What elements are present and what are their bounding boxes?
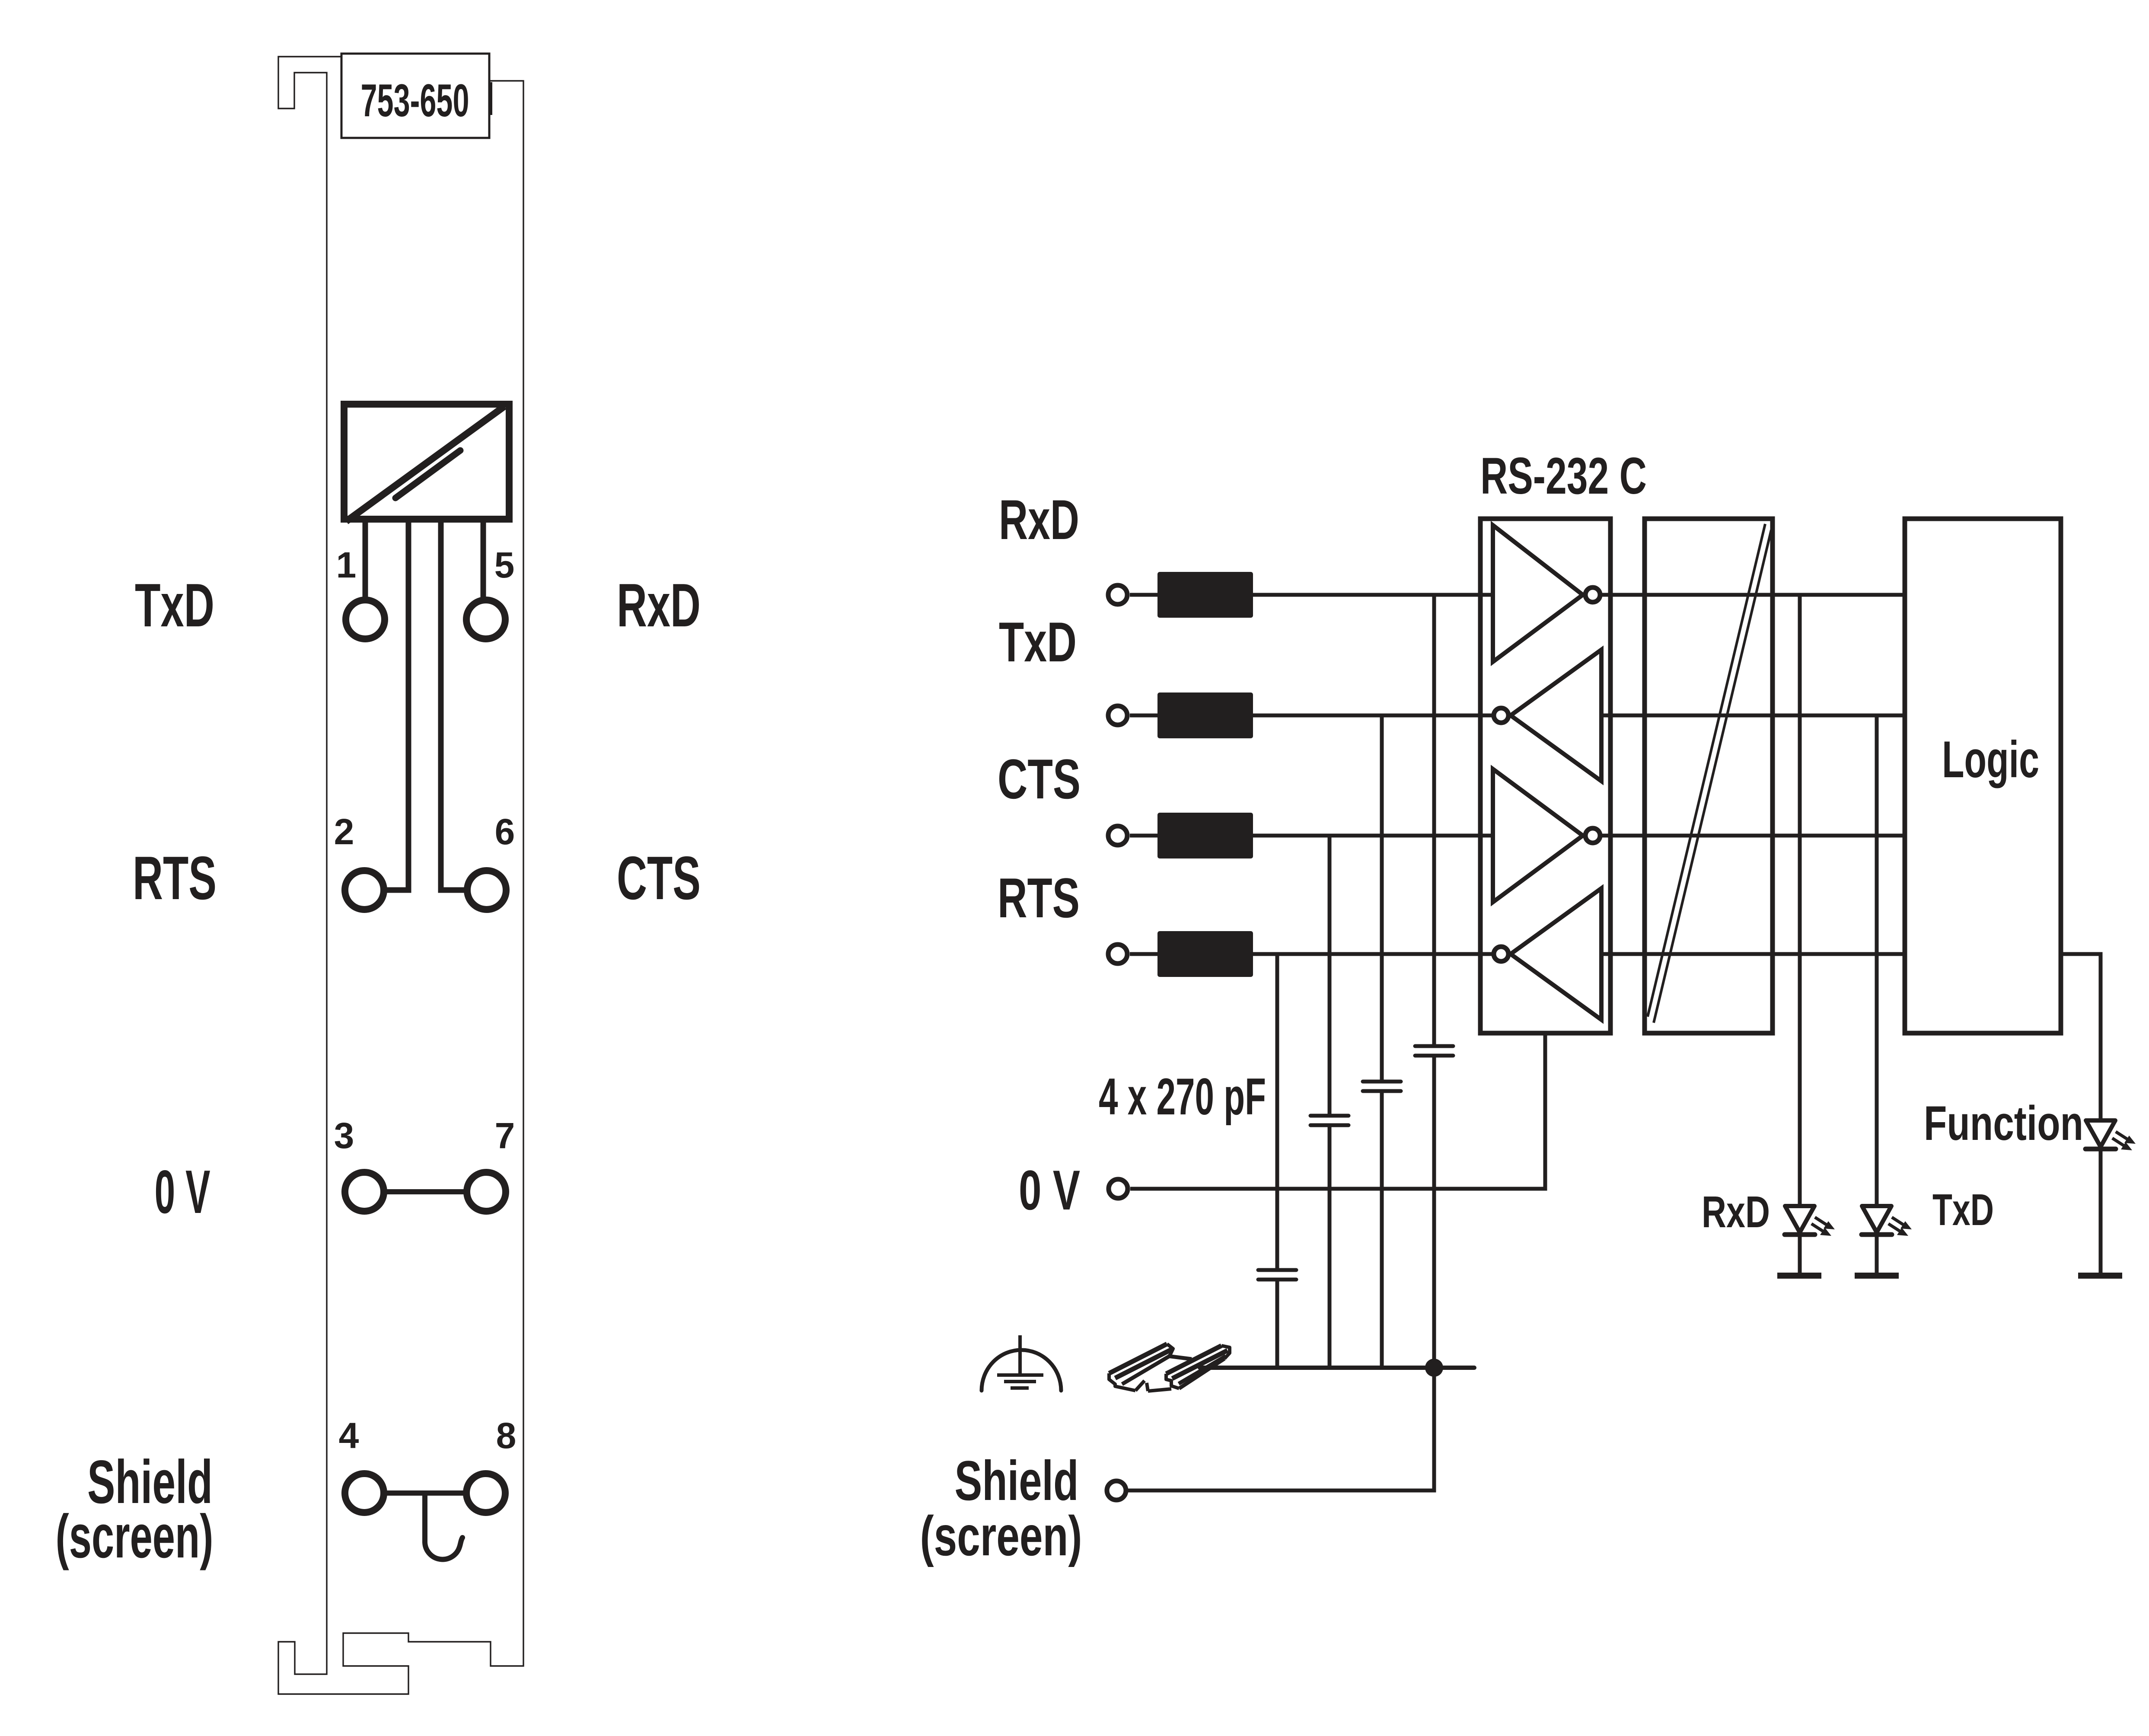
resistor CTS <box>1157 813 1253 858</box>
LED Function arrows <box>2111 1130 2136 1150</box>
wire RTS row <box>1130 952 1905 956</box>
pin wire 1 <box>363 519 368 601</box>
LED TxD <box>1862 1206 1891 1232</box>
resistor TxD <box>1157 692 1253 738</box>
svg-text:0 V: 0 V <box>155 1158 210 1226</box>
svg-text:6: 6 <box>495 811 515 852</box>
svg-text:753-650: 753-650 <box>361 74 469 126</box>
inverter circle TxD <box>1494 708 1508 723</box>
terminal 2 RTS <box>345 871 384 909</box>
RS-232C driver box <box>1480 519 1610 1033</box>
inverter circle RxD <box>1585 587 1600 602</box>
svg-text:7: 7 <box>495 1115 515 1156</box>
svg-text:(screen): (screen) <box>920 1504 1082 1567</box>
buffer triangle RxD <box>1493 525 1583 662</box>
wire logic to Function LED <box>2061 954 2101 1120</box>
buffer triangle RTS <box>1511 888 1601 1020</box>
LED TxD arrows <box>1888 1216 1912 1236</box>
LED Function <box>2086 1120 2115 1147</box>
svg-text:Logic: Logic <box>1942 731 2039 788</box>
svg-text:(screen): (screen) <box>56 1502 214 1571</box>
svg-text:RxD: RxD <box>1702 1187 1770 1237</box>
LED RxD <box>1785 1206 1814 1232</box>
svg-text:8: 8 <box>496 1415 517 1456</box>
terminal Shield <box>1107 1481 1126 1500</box>
svg-text:5: 5 <box>494 545 515 585</box>
LED RxD arrows <box>1811 1216 1835 1236</box>
svg-text:RTS: RTS <box>133 844 217 913</box>
svg-text:TxD: TxD <box>135 571 214 640</box>
terminal 1 TxD <box>346 600 385 639</box>
svg-text:Function: Function <box>1924 1096 2083 1150</box>
svg-text:2: 2 <box>334 811 354 852</box>
earth symbol <box>1018 1335 1022 1375</box>
terminal RTS <box>1108 945 1127 964</box>
svg-text:1: 1 <box>336 545 357 585</box>
pin wire 3 to CTS <box>441 519 466 890</box>
wire RxD row <box>1130 593 1905 597</box>
shield wire <box>1128 1368 1434 1490</box>
svg-text:4: 4 <box>339 1415 359 1456</box>
isolation diagonal <box>346 406 504 521</box>
svg-text:TxD: TxD <box>1932 1185 1994 1235</box>
inverter circle CTS <box>1585 828 1600 843</box>
Logic box <box>1905 519 2061 1033</box>
svg-text:RxD: RxD <box>999 488 1079 551</box>
capacitor plates RxD <box>1415 1046 1453 1056</box>
terminal TxD <box>1108 706 1127 725</box>
0V wire to RS-232C <box>1130 1033 1545 1189</box>
ground bar TxD LED <box>1855 1273 1899 1279</box>
terminal 5 RxD <box>466 600 505 639</box>
buffer triangle TxD <box>1511 650 1601 781</box>
right edge stub <box>490 82 492 115</box>
isolation box (schematic) <box>1645 519 1773 1033</box>
wire logic to TxD LED <box>1875 715 1879 1206</box>
resistor RTS <box>1157 931 1253 977</box>
isolation double diagonal <box>1648 524 1771 1023</box>
module outline 753-650 bus coupler body <box>278 57 523 1694</box>
shield hook <box>425 1493 462 1559</box>
link Shield terminals <box>380 1490 469 1496</box>
label plate 753-650 <box>341 54 489 138</box>
isolation short diagonal <box>395 450 460 498</box>
svg-text:RS-232 C: RS-232 C <box>1480 447 1647 505</box>
wire TxD row <box>1130 714 1905 718</box>
DIN rail icon <box>1109 1344 1230 1391</box>
terminal 8 Shield <box>466 1474 505 1513</box>
terminal RxD <box>1108 585 1127 604</box>
ground bus <box>1200 1366 1474 1370</box>
isolation box (left module) <box>344 404 509 519</box>
terminal 3 0V <box>345 1172 384 1211</box>
svg-text:RTS: RTS <box>998 866 1080 929</box>
svg-text:4 x 270 pF: 4 x 270 pF <box>1099 1068 1266 1126</box>
terminal CTS <box>1108 826 1127 845</box>
terminal 7 0V <box>467 1172 506 1211</box>
buffer triangle CTS <box>1493 769 1583 902</box>
terminal 0V <box>1109 1179 1128 1198</box>
capacitor plates RTS <box>1258 1270 1296 1280</box>
svg-text:TxD: TxD <box>999 610 1077 673</box>
inverter circle RTS <box>1494 947 1508 961</box>
tap TxD with capacitor <box>1380 715 1384 1368</box>
svg-text:3: 3 <box>334 1115 354 1156</box>
svg-text:CTS: CTS <box>998 747 1081 811</box>
pin wire 2 to RTS <box>385 519 408 890</box>
junction dot <box>1425 1359 1443 1377</box>
tap CTS with capacitor <box>1328 836 1332 1368</box>
svg-text:RxD: RxD <box>617 571 701 640</box>
svg-text:Shield: Shield <box>955 1449 1079 1512</box>
tap RxD with capacitor <box>1432 595 1436 1368</box>
wire logic to RxD LED <box>1798 595 1802 1206</box>
svg-text:CTS: CTS <box>617 844 701 913</box>
capacitor plates TxD <box>1363 1082 1401 1091</box>
ground bar RxD LED <box>1777 1273 1821 1279</box>
svg-text:0 V: 0 V <box>1019 1158 1080 1222</box>
terminal 6 CTS <box>467 871 506 909</box>
ground bar Function LED <box>2078 1273 2122 1279</box>
capacitor plates CTS <box>1310 1116 1349 1125</box>
wire CTS row <box>1130 834 1905 838</box>
tap RTS with capacitor <box>1275 954 1279 1368</box>
pin wire 4 <box>481 519 486 601</box>
resistor RxD <box>1157 572 1253 618</box>
link 0V terminals <box>380 1189 469 1194</box>
terminal 4 Shield <box>345 1474 384 1513</box>
